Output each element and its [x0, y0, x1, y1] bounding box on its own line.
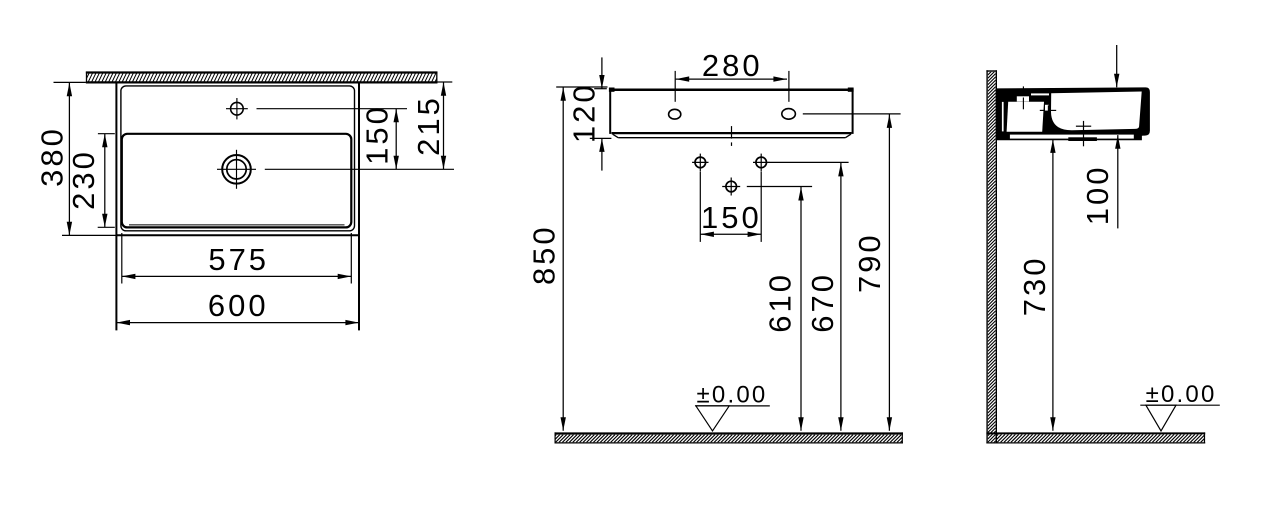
svg-text:575: 575 — [208, 242, 269, 277]
svg-text:730: 730 — [1017, 256, 1052, 317]
svg-text:670: 670 — [805, 272, 840, 333]
svg-text:610: 610 — [762, 272, 797, 333]
svg-text:380: 380 — [35, 126, 70, 187]
svg-text:280: 280 — [702, 48, 763, 83]
svg-text:790: 790 — [852, 232, 887, 293]
svg-text:215: 215 — [411, 95, 446, 156]
svg-text:120: 120 — [566, 82, 601, 143]
svg-text:850: 850 — [527, 224, 562, 285]
svg-text:230: 230 — [66, 149, 101, 210]
svg-text:±0.00: ±0.00 — [1146, 381, 1217, 408]
svg-text:150: 150 — [360, 104, 395, 165]
svg-text:±0.00: ±0.00 — [697, 382, 768, 409]
svg-text:150: 150 — [701, 200, 762, 235]
svg-text:100: 100 — [1080, 165, 1115, 226]
svg-text:600: 600 — [208, 288, 269, 323]
